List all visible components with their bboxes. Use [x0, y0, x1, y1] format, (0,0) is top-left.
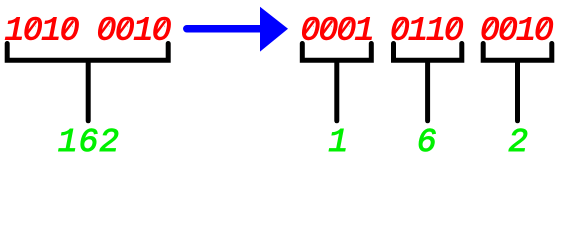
svg-text:1: 1: [328, 124, 348, 159]
zero slashes group 2: [393, 21, 457, 35]
zero slashes left group: [26, 21, 165, 35]
zero dot erase group 2: [397, 25, 458, 32]
zero dot erase group 1: [307, 25, 350, 32]
zero dot erase group 3: [487, 25, 548, 32]
svg-text:6: 6: [417, 124, 437, 159]
arrow: [187, 7, 288, 52]
svg-text:2: 2: [508, 124, 528, 159]
zero dot erase left group: [30, 25, 165, 32]
zero slashes group 3: [483, 21, 547, 35]
bracket group 3: [483, 44, 552, 121]
bracket big group: [7, 44, 168, 121]
svg-text:162: 162: [58, 124, 120, 159]
bracket group 2: [394, 44, 462, 121]
bracket group 1: [302, 44, 371, 121]
zero slashes group 1: [304, 21, 350, 35]
